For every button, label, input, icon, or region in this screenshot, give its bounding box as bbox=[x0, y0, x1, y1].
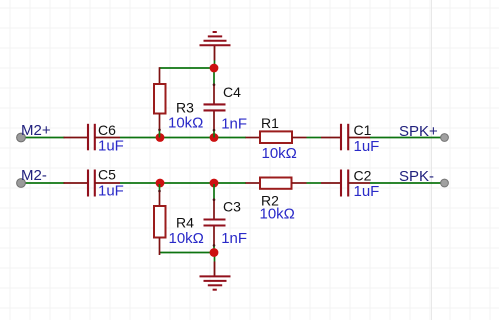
svg-text:R3: R3 bbox=[176, 100, 194, 116]
svg-text:1nF: 1nF bbox=[221, 230, 247, 247]
svg-text:1uF: 1uF bbox=[354, 138, 380, 155]
svg-text:R4: R4 bbox=[176, 215, 194, 231]
svg-text:10kΩ: 10kΩ bbox=[168, 115, 203, 132]
svg-text:C4: C4 bbox=[223, 84, 241, 100]
svg-text:1uF: 1uF bbox=[354, 183, 380, 200]
svg-text:C2: C2 bbox=[354, 168, 372, 184]
svg-text:C6: C6 bbox=[98, 122, 116, 138]
svg-text:10kΩ: 10kΩ bbox=[262, 145, 297, 162]
svg-text:M2+: M2+ bbox=[21, 122, 51, 139]
svg-text:1nF: 1nF bbox=[221, 116, 247, 133]
svg-text:C5: C5 bbox=[98, 167, 116, 183]
svg-text:R1: R1 bbox=[261, 115, 279, 131]
svg-text:10kΩ: 10kΩ bbox=[260, 206, 295, 223]
svg-text:1uF: 1uF bbox=[98, 138, 124, 155]
svg-text:M2-: M2- bbox=[21, 167, 47, 184]
svg-text:SPK-: SPK- bbox=[399, 168, 434, 185]
svg-text:C1: C1 bbox=[354, 122, 372, 138]
svg-text:1uF: 1uF bbox=[98, 183, 124, 200]
svg-text:10kΩ: 10kΩ bbox=[169, 230, 204, 247]
svg-text:C3: C3 bbox=[223, 199, 241, 215]
svg-text:SPK+: SPK+ bbox=[399, 123, 438, 140]
